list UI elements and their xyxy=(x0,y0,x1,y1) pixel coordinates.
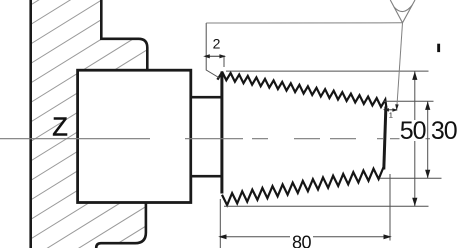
cutting tool xyxy=(390,0,415,23)
tool path line xyxy=(206,22,402,24)
chuck lower-right edge xyxy=(96,203,146,248)
shaft step (small rectangle) xyxy=(191,97,222,176)
label 30 xyxy=(430,121,457,141)
svg-text:Z: Z xyxy=(52,114,68,142)
cone body white fill xyxy=(222,72,386,207)
2 dimension: extension line + leader to chamfer xyxy=(206,23,219,78)
dimension line 30 xyxy=(427,101,429,178)
chuck left edge xyxy=(29,0,32,248)
cone left face xyxy=(220,72,223,194)
centerline (axis) xyxy=(0,138,433,140)
1 dimension at thread crest xyxy=(384,109,397,111)
top thread zigzag xyxy=(222,72,386,108)
extension line top (d30) xyxy=(384,100,434,102)
dimension line 80 xyxy=(220,236,390,238)
svg-text:50: 50 xyxy=(400,117,426,145)
svg-text:30: 30 xyxy=(431,117,457,145)
extension line top (d50) xyxy=(226,70,429,72)
2 dimension line with outward arrows xyxy=(205,55,225,57)
tool leader down to thread xyxy=(397,23,403,108)
chuck upper-right edge xyxy=(101,0,147,70)
bottom thread zigzag xyxy=(222,167,384,205)
80 dimension extension lines xyxy=(219,199,221,248)
label 50 xyxy=(400,121,426,141)
svg-text:2: 2 xyxy=(213,36,221,52)
svg-text:1: 1 xyxy=(389,111,393,120)
extension line bottom (d30) xyxy=(380,177,442,179)
label 80 xyxy=(290,235,313,248)
cone right face xyxy=(384,107,386,170)
chamfer at thread start xyxy=(217,72,222,80)
svg-text:80: 80 xyxy=(292,233,312,248)
workpiece blank (large rectangle) xyxy=(78,70,191,202)
chuck hatching xyxy=(25,0,160,248)
dimension line 50 xyxy=(414,71,416,120)
label I (tool pass) xyxy=(437,44,440,52)
extension line bottom (d50) xyxy=(224,205,429,207)
